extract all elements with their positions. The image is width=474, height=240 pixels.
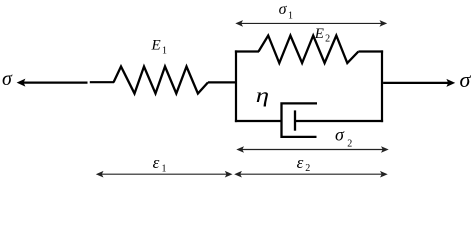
dashpot cylinder <box>282 103 318 136</box>
wire: box bottom edge left (rod to dashpot) <box>235 120 282 122</box>
box: right vertical <box>381 50 383 122</box>
wire: piston rod to box right <box>295 120 383 122</box>
svg-text:1: 1 <box>162 164 167 175</box>
label eta <box>256 85 269 108</box>
svg-text:1: 1 <box>162 45 167 56</box>
dashpot piston plate <box>294 110 296 130</box>
svg-text:ε: ε <box>153 153 160 172</box>
svg-text:σ: σ <box>335 125 345 145</box>
svg-text:1: 1 <box>288 10 293 21</box>
svg-text:2: 2 <box>325 34 330 45</box>
dimension epsilon2 arrow <box>239 173 383 175</box>
arrowhead left sigma <box>17 79 26 87</box>
dimension epsilon1 arrow <box>101 173 229 175</box>
wire: left stress arrow shaft <box>22 81 88 83</box>
svg-text:2: 2 <box>305 163 310 174</box>
arrowhead right sigma <box>446 79 455 87</box>
resistor-style spring E1 <box>114 67 209 94</box>
svg-text:E: E <box>151 38 161 54</box>
spring E2 <box>259 36 359 64</box>
wire: box top edge right <box>358 50 383 52</box>
box: parallel branch frame (left vertical) <box>235 50 237 122</box>
dimension sigma1 arrow <box>240 22 383 24</box>
svg-text:2: 2 <box>347 138 352 149</box>
svg-text:σ: σ <box>279 1 288 18</box>
svg-text:ε: ε <box>297 153 304 172</box>
svg-text:η: η <box>256 85 269 108</box>
wire: box top edge left <box>235 50 259 52</box>
wire: segment into spring E1 <box>90 81 114 83</box>
dimension sigma2 arrow <box>241 149 384 151</box>
wire: right stress arrow shaft <box>383 82 450 84</box>
svg-text:σ: σ <box>2 68 13 90</box>
wire: spring E1 to box <box>208 81 236 83</box>
svg-text:E: E <box>314 26 324 42</box>
svg-text:σ: σ <box>460 67 472 92</box>
